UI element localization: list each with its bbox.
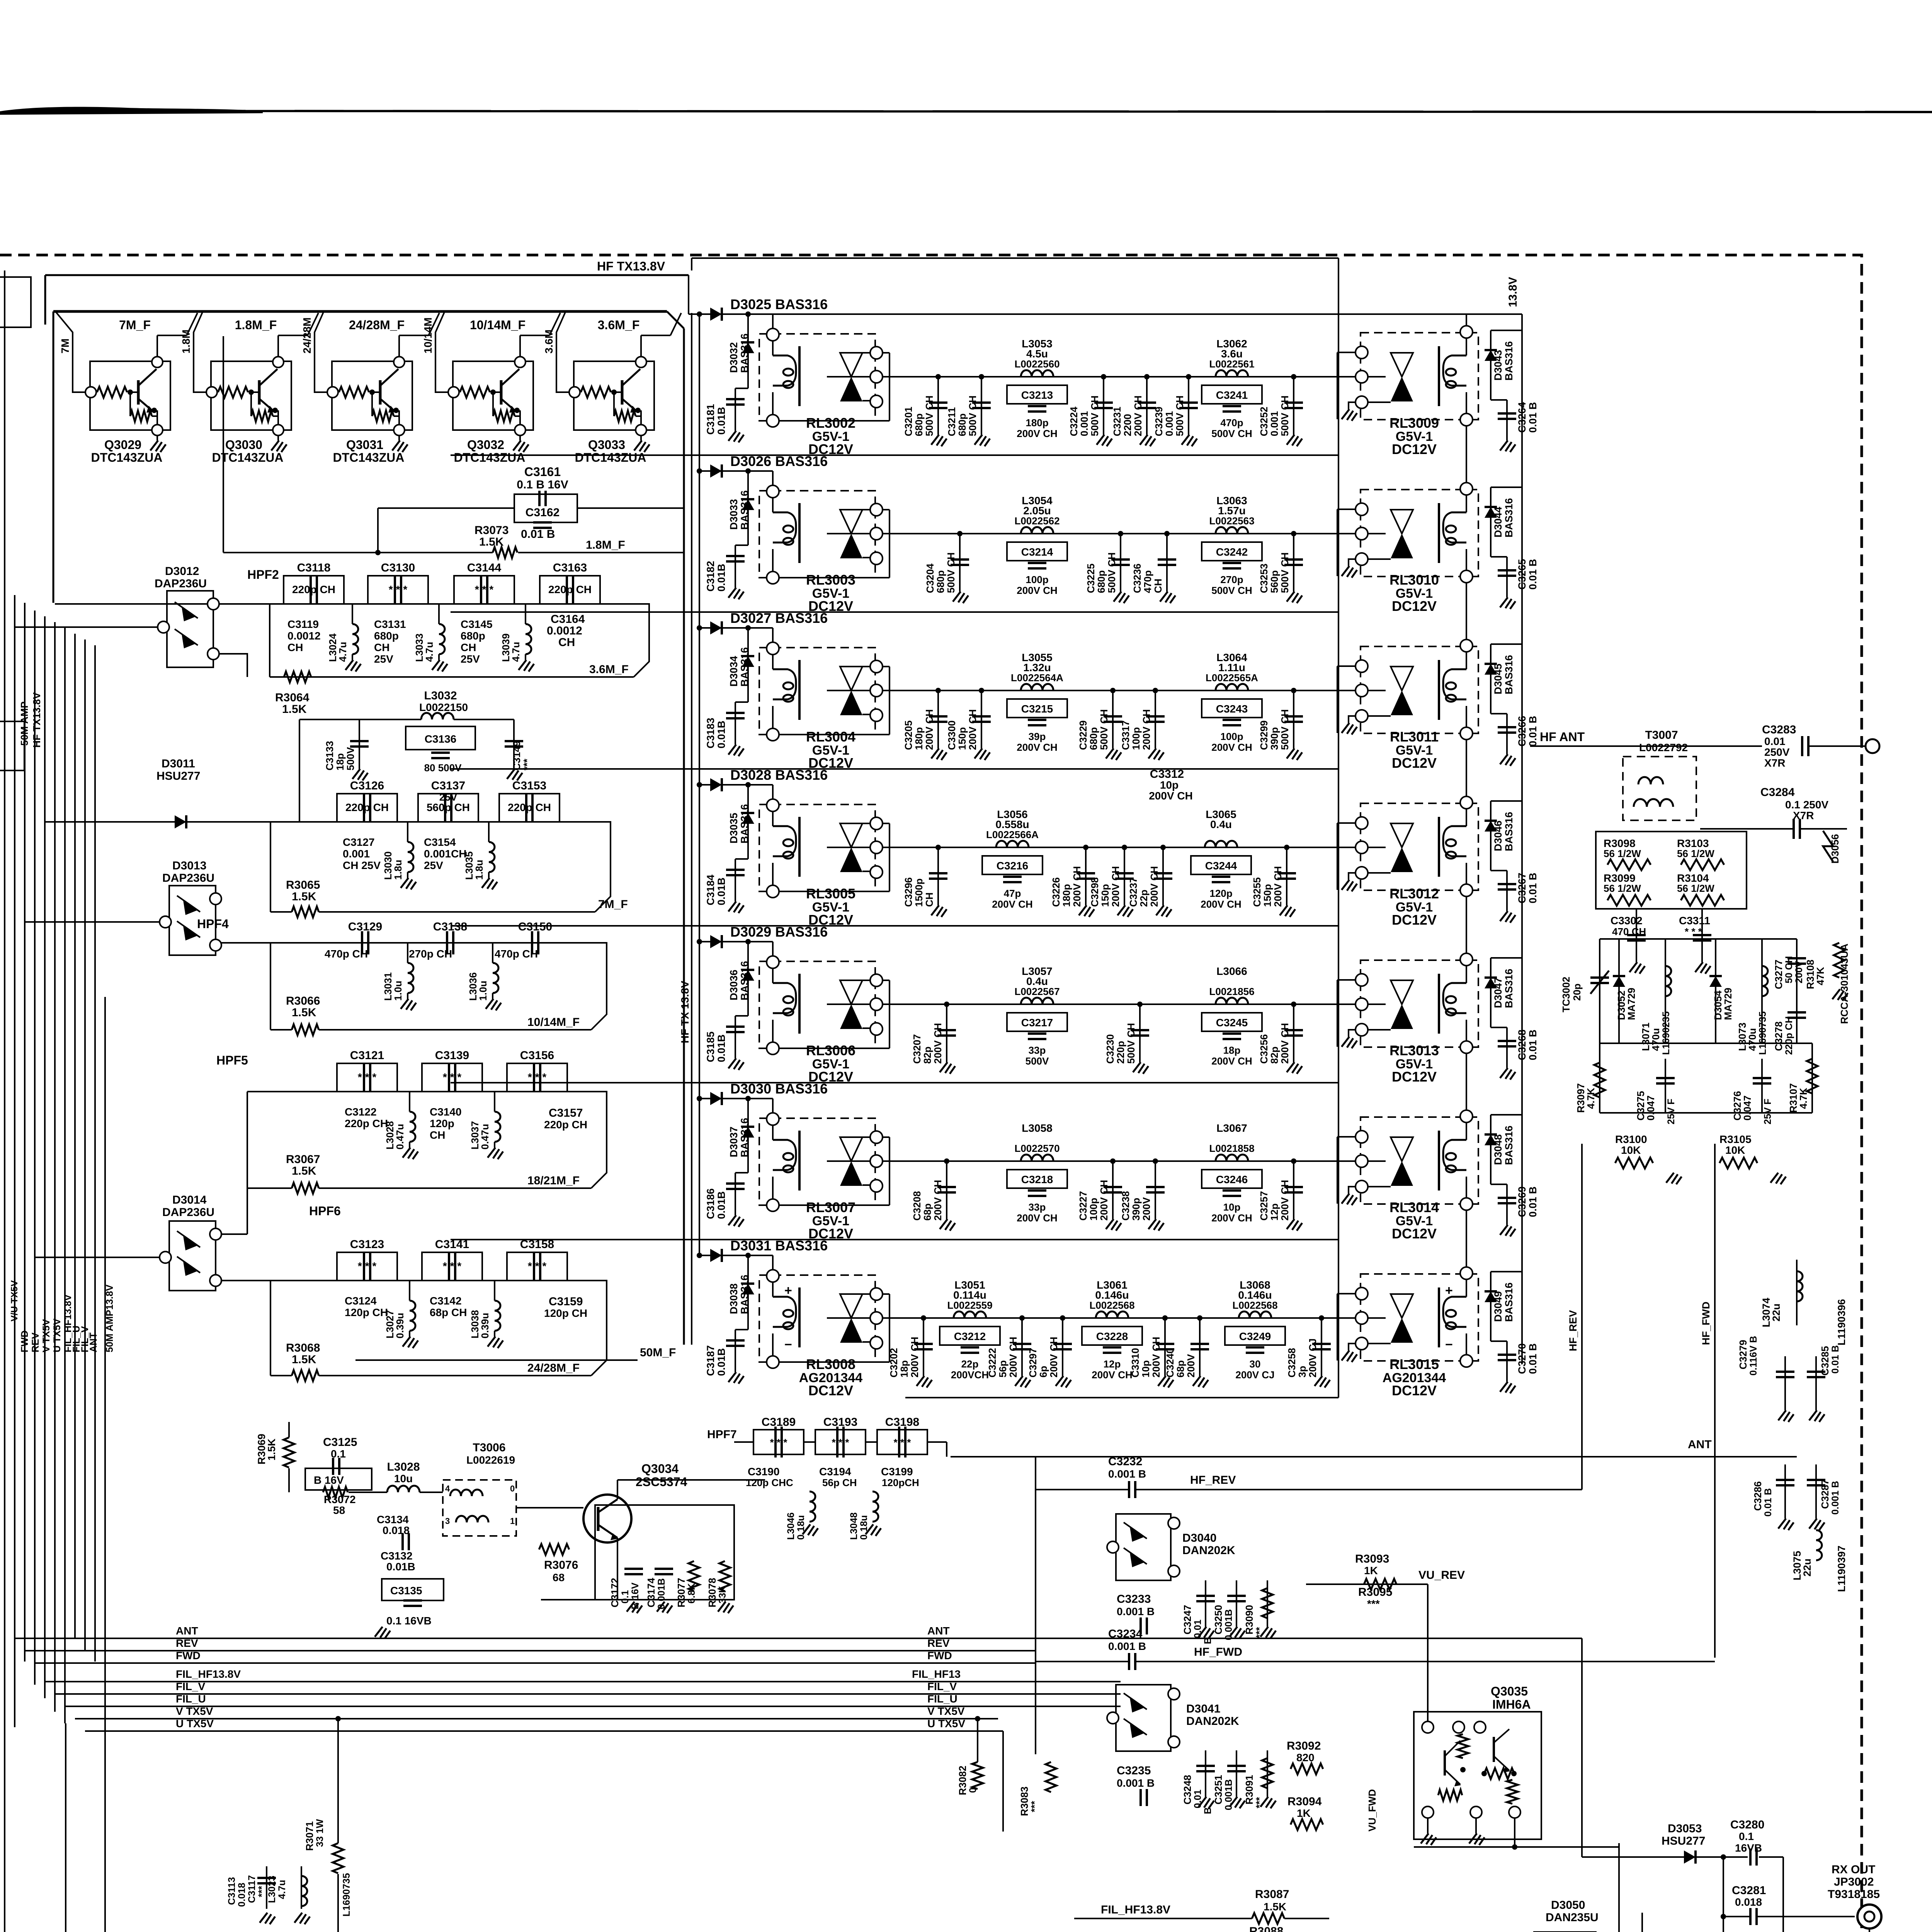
ground relay — [1349, 1030, 1355, 1037]
svg-text:RL3003: RL3003 — [806, 572, 855, 588]
capacitor C3249 — [1225, 1327, 1285, 1345]
svg-text:CH: CH — [461, 641, 476, 653]
svg-text:C3153: C3153 — [512, 779, 546, 792]
row separator — [451, 611, 1338, 613]
wire 1.8M_F — [223, 552, 493, 553]
svg-text:L0021856: L0021856 — [1209, 986, 1254, 997]
svg-text:24/28M_F: 24/28M_F — [349, 318, 405, 332]
svg-text:D3036: D3036 — [728, 969, 740, 1000]
wire input 10/14M — [435, 312, 449, 392]
svg-text:C3229: C3229 — [1077, 720, 1089, 750]
svg-text:100p: 100p — [1088, 1198, 1099, 1221]
svg-text:R3100: R3100 — [1615, 1133, 1647, 1145]
capacitor C3144 — [454, 576, 514, 604]
capacitor C3187 — [735, 1329, 748, 1330]
svg-text:C3133: C3133 — [324, 741, 335, 770]
svg-text:REV: REV — [927, 1637, 950, 1649]
svg-text:500V CH: 500V CH — [1089, 396, 1100, 437]
svg-text:+: + — [1445, 1283, 1453, 1298]
capacitor C3278 — [1787, 1012, 1806, 1018]
svg-text:DAN202K: DAN202K — [1182, 1544, 1235, 1557]
inductor L3067 — [1216, 1155, 1248, 1161]
capacitor C3268 — [1491, 1027, 1507, 1028]
capacitor C3183 — [735, 701, 748, 703]
svg-text:C3208: C3208 — [911, 1191, 923, 1221]
capacitor C3224 — [1103, 377, 1104, 435]
svg-text:R3078: R3078 — [706, 1578, 718, 1607]
svg-text:RL3008: RL3008 — [806, 1356, 855, 1372]
inductor L3046 — [809, 1454, 810, 1492]
svg-text:0.01B: 0.01B — [386, 1561, 415, 1573]
svg-text:L0022563: L0022563 — [1209, 515, 1254, 527]
svg-text:0.01B: 0.01B — [716, 407, 727, 435]
svg-text:FIL_HF13.8V: FIL_HF13.8V — [1101, 1903, 1170, 1916]
ground Q3029 — [156, 435, 158, 440]
svg-text:250V: 250V — [1764, 746, 1790, 758]
ground relay — [1349, 559, 1355, 566]
svg-text:10p: 10p — [1223, 1201, 1241, 1213]
row separator — [451, 1239, 1338, 1240]
resistor base Q3033 — [581, 387, 611, 398]
capacitor C3156 — [507, 1063, 567, 1092]
svg-text:FWD: FWD — [927, 1650, 952, 1662]
svg-text:0.01 B: 0.01 B — [1527, 402, 1539, 433]
svg-text:25V: 25V — [439, 791, 457, 803]
inductor L3055 — [1021, 684, 1053, 690]
wire output 24/28M_F — [398, 335, 400, 357]
svg-text:L0022565A: L0022565A — [1206, 672, 1258, 684]
resistor R3107 4.7K — [1811, 1043, 1813, 1113]
diode D3047 BAS316 vertical — [1490, 958, 1492, 1027]
ground Q3030 — [277, 435, 279, 440]
svg-text:MA729: MA729 — [1722, 988, 1734, 1020]
svg-text:47p: 47p — [1004, 888, 1021, 899]
svg-text:L1690235: L1690235 — [1661, 1011, 1672, 1055]
left vertical bus wires — [4, 270, 5, 1932]
svg-text:50M_F: 50M_F — [640, 1346, 676, 1359]
inductor L3030 — [407, 822, 408, 842]
capacitor C3236 — [1166, 534, 1168, 592]
svg-text:C3159: C3159 — [549, 1295, 583, 1308]
svg-text:220p CH: 220p CH — [508, 801, 551, 813]
capacitor C3241 — [1202, 385, 1262, 404]
wire output 3.6M_F — [640, 335, 642, 357]
capacitor C3212 — [940, 1327, 1000, 1345]
svg-text:C3233: C3233 — [1117, 1593, 1151, 1605]
svg-text:390p: 390p — [1269, 727, 1280, 750]
svg-text:12p: 12p — [1269, 1203, 1280, 1221]
svg-text:C3164: C3164 — [551, 613, 585, 626]
svg-text:FIL_U: FIL_U — [176, 1693, 206, 1705]
node pin emitter Q3030 — [273, 425, 284, 435]
svg-text:VU_FWD: VU_FWD — [1366, 1789, 1378, 1832]
svg-text:DC12V: DC12V — [1392, 1226, 1437, 1242]
svg-text:CH: CH — [430, 1129, 445, 1141]
node pin in Q3033 — [569, 387, 580, 398]
svg-text:500V CH: 500V CH — [967, 396, 978, 437]
svg-text:200V: 200V — [1141, 1197, 1152, 1221]
svg-text:470p CH: 470p CH — [325, 948, 368, 960]
svg-text:L0022560: L0022560 — [1014, 358, 1060, 370]
inductor L3037 — [494, 1092, 495, 1112]
svg-text:CH: CH — [287, 641, 303, 653]
svg-text:0.01 B: 0.01 B — [1830, 1345, 1841, 1374]
capacitor C3130 — [368, 576, 428, 604]
capacitor C3198 — [877, 1430, 927, 1454]
filter bank box — [53, 310, 667, 313]
svg-text:BAS316: BAS316 — [739, 490, 750, 530]
svg-text:***: *** — [1367, 1598, 1380, 1610]
svg-text:R3076: R3076 — [544, 1559, 578, 1571]
scan artifact top bar — [0, 107, 263, 115]
svg-text:L0022792: L0022792 — [1639, 742, 1688, 753]
svg-text:1.8u: 1.8u — [473, 860, 485, 880]
inductor L3073 470u — [1761, 939, 1763, 1043]
svg-text:C3249: C3249 — [1239, 1330, 1271, 1342]
capacitor C3300 — [981, 690, 982, 748]
svg-text:C3187: C3187 — [705, 1345, 716, 1376]
svg-text:0.01 B: 0.01 B — [1763, 1488, 1774, 1517]
svg-text:56p CH: 56p CH — [822, 1477, 857, 1488]
svg-text:C3243: C3243 — [1216, 703, 1248, 715]
row separator — [451, 454, 1338, 456]
svg-text:120p CH: 120p CH — [345, 1306, 388, 1318]
svg-text:500V CH: 500V CH — [1098, 709, 1110, 750]
right relay chain bus — [1466, 314, 1467, 326]
inductor L3051 — [954, 1311, 986, 1318]
svg-text:C3144: C3144 — [467, 561, 502, 574]
capacitor C3201 — [937, 377, 939, 435]
node pin in Q3029 — [85, 387, 96, 398]
wires right section — [1600, 938, 1797, 940]
svg-text:* * *: * * * — [528, 1071, 546, 1083]
svg-text:500V CH: 500V CH — [1125, 1023, 1137, 1064]
svg-text:DC12V: DC12V — [1392, 912, 1437, 928]
svg-text:33p: 33p — [1029, 1044, 1046, 1056]
svg-text:D3049: D3049 — [1492, 1291, 1504, 1322]
svg-text:R3091: R3091 — [1243, 1775, 1255, 1804]
diode D3027 BAS316 — [699, 627, 759, 629]
capacitor C3226 — [1085, 847, 1087, 905]
svg-text:0.0012: 0.0012 — [547, 624, 582, 637]
svg-text:0.001 B: 0.001 B — [1117, 1777, 1155, 1789]
svg-text:Q3034: Q3034 — [641, 1462, 679, 1476]
svg-text:L3023: L3023 — [267, 1876, 277, 1903]
wire 50M_F — [347, 1354, 348, 1376]
svg-text:50M AMP13.8V: 50M AMP13.8V — [104, 1284, 115, 1352]
svg-text:1.5K: 1.5K — [292, 1006, 316, 1019]
capacitor C3286 — [1784, 1464, 1786, 1519]
svg-text:RX OUT: RX OUT — [1832, 1863, 1875, 1876]
svg-text:D3040: D3040 — [1182, 1532, 1216, 1544]
svg-text:500V CH: 500V CH — [1279, 396, 1291, 437]
svg-text:0.047: 0.047 — [1645, 1095, 1656, 1121]
capacitor C3296 — [937, 847, 939, 905]
svg-text:200VCH: 200VCH — [951, 1369, 989, 1381]
svg-text:FIL_V: FIL_V — [927, 1680, 957, 1692]
svg-text:1.5K: 1.5K — [292, 890, 316, 903]
svg-text:680p: 680p — [956, 413, 968, 436]
ground Q3032 — [519, 435, 521, 440]
ground relay — [1349, 402, 1355, 409]
resistor base Q3029 — [97, 387, 127, 398]
svg-text:C3172: C3172 — [609, 1578, 621, 1607]
svg-text:C3123: C3123 — [350, 1238, 384, 1251]
svg-text:C3215: C3215 — [1021, 703, 1053, 715]
svg-text:RL3006: RL3006 — [806, 1043, 855, 1058]
svg-text:C3258: C3258 — [1286, 1348, 1298, 1378]
svg-text:82p: 82p — [922, 1046, 933, 1064]
capacitor C3266 — [1491, 713, 1507, 714]
filter row wire — [900, 533, 1314, 534]
svg-text:220p: 220p — [1115, 1041, 1126, 1064]
svg-text:L0022562: L0022562 — [1014, 515, 1060, 527]
svg-text:C3182: C3182 — [705, 561, 716, 592]
svg-text:0.01 B: 0.01 B — [521, 528, 555, 541]
svg-text:C3242: C3242 — [1216, 546, 1248, 558]
wire HF_REV vertical — [1581, 1144, 1583, 1490]
svg-text:4.7u: 4.7u — [510, 642, 522, 662]
svg-text:Q3035: Q3035 — [1491, 1684, 1528, 1698]
svg-text:470u: 470u — [1747, 1028, 1758, 1051]
svg-text:1.8u: 1.8u — [392, 860, 404, 880]
node pin in Q3030 — [206, 387, 217, 398]
capacitor C3258 — [1321, 1318, 1322, 1376]
svg-text:1.5K: 1.5K — [266, 1438, 277, 1461]
svg-text:200V CH: 200V CH — [1092, 1369, 1133, 1381]
svg-text:0.001: 0.001 — [1269, 411, 1280, 436]
svg-text:120p CHC: 120p CHC — [746, 1477, 793, 1488]
svg-text:200V CH: 200V CH — [932, 1023, 944, 1064]
left relay feed bus — [699, 314, 700, 1255]
svg-text:680p: 680p — [913, 413, 925, 436]
node pin emitter Q3033 — [636, 425, 646, 435]
svg-text:C3204: C3204 — [924, 563, 936, 593]
svg-text:3p: 3p — [1296, 1366, 1308, 1378]
svg-text:D3046: D3046 — [1492, 820, 1504, 851]
filter matrix frame — [692, 257, 1338, 259]
svg-text:R3071: R3071 — [304, 1821, 315, 1851]
svg-text:6p: 6p — [1037, 1366, 1049, 1378]
svg-text:1.0u: 1.0u — [392, 981, 404, 1001]
svg-text:100p: 100p — [1130, 727, 1142, 750]
svg-text:C3285: C3285 — [1819, 1346, 1831, 1376]
svg-text:C3268: C3268 — [1516, 1029, 1528, 1060]
capacitor C3267 — [1491, 870, 1507, 871]
net bus FIL_HF13.8V — [110, 1681, 1121, 1682]
capacitor C3181 — [735, 388, 748, 389]
svg-text:500V: 500V — [345, 747, 356, 770]
capacitor C3126 — [337, 794, 397, 822]
svg-text:C3135: C3135 — [390, 1585, 422, 1597]
svg-text:ANT: ANT — [176, 1625, 198, 1637]
svg-text:0.39u: 0.39u — [394, 1313, 406, 1339]
svg-text:RL3009: RL3009 — [1389, 415, 1439, 431]
svg-text:REV: REV — [176, 1637, 198, 1649]
terminal HF ANT — [1866, 739, 1879, 753]
svg-text:0.01: 0.01 — [1192, 1789, 1203, 1808]
relay RL3013 G5V-1 — [1361, 960, 1478, 1047]
svg-text:C3257: C3257 — [1258, 1191, 1270, 1221]
wire VU_FWD down — [1618, 1843, 1620, 1932]
svg-text:L1690735: L1690735 — [341, 1873, 352, 1917]
inductor L3028 — [409, 1092, 410, 1112]
svg-text:L3046: L3046 — [786, 1512, 796, 1540]
svg-text:C3216: C3216 — [997, 860, 1029, 872]
svg-text:C3226: C3226 — [1050, 877, 1062, 907]
svg-text:C3231: C3231 — [1111, 406, 1123, 436]
svg-text:C3118: C3118 — [297, 561, 331, 574]
svg-text:RL3011: RL3011 — [1390, 729, 1439, 745]
svg-text:0.01 B: 0.01 B — [1527, 1029, 1539, 1060]
svg-text:680p: 680p — [1095, 570, 1107, 593]
svg-text:CH 25V: CH 25V — [343, 859, 381, 871]
capacitor C3204 — [959, 534, 961, 592]
svg-text:150p: 150p — [956, 727, 968, 750]
filter row wire — [900, 1003, 1314, 1005]
svg-text:200V CH: 200V CH — [1211, 742, 1252, 753]
svg-text:D3026 BAS316: D3026 BAS316 — [730, 453, 828, 469]
svg-text:200V CH: 200V CH — [967, 709, 978, 750]
capacitor C3137 — [418, 794, 478, 822]
capacitor C3207 — [946, 1004, 947, 1062]
relay RL3009 G5V-1 — [1361, 333, 1478, 420]
svg-text:200V CH: 200V CH — [1007, 1337, 1019, 1378]
capacitor C3239 — [1188, 377, 1189, 435]
svg-text:33 1W: 33 1W — [315, 1819, 325, 1847]
svg-text:12p: 12p — [1104, 1358, 1121, 1370]
svg-text:DAP236U: DAP236U — [162, 872, 214, 884]
svg-text:D3035: D3035 — [728, 813, 740, 844]
svg-text:L1190397: L1190397 — [1836, 1546, 1847, 1592]
svg-text:L3067: L3067 — [1216, 1122, 1247, 1134]
capacitor C3255 — [1286, 847, 1287, 905]
svg-text:3: 3 — [445, 1516, 450, 1526]
svg-text:−: − — [784, 1337, 792, 1352]
output network Q3034 — [595, 1505, 734, 1600]
svg-text:10u: 10u — [394, 1473, 413, 1485]
svg-text:0.001: 0.001 — [1163, 411, 1175, 436]
svg-text:0.018: 0.018 — [383, 1524, 410, 1536]
svg-text:L0022619: L0022619 — [466, 1454, 515, 1466]
svg-text:DC12V: DC12V — [808, 1383, 853, 1398]
svg-text:0.01B: 0.01B — [716, 721, 727, 748]
svg-text:IMH6A: IMH6A — [1492, 1697, 1531, 1711]
svg-text:120p: 120p — [1209, 888, 1232, 899]
svg-text:200V CH: 200V CH — [1048, 1337, 1060, 1378]
svg-text:DTC143ZUA: DTC143ZUA — [575, 451, 646, 464]
capacitor C3213 — [1007, 385, 1067, 404]
svg-text:10/14M: 10/14M — [422, 318, 434, 354]
svg-text:U TX5V: U TX5V — [52, 1318, 63, 1352]
svg-text:200V CJ: 200V CJ — [1235, 1369, 1274, 1381]
svg-text:D3011: D3011 — [162, 757, 195, 770]
svg-text:C3283: C3283 — [1762, 723, 1796, 736]
svg-text:200V CH: 200V CH — [1149, 790, 1193, 802]
diode D3046 BAS316 vertical — [1490, 801, 1492, 871]
capacitor C3139 — [422, 1063, 482, 1092]
svg-text:10K: 10K — [1725, 1144, 1745, 1156]
transistor Q3029 DTC143ZUA cell — [90, 361, 170, 430]
net bus FIL_U — [110, 1706, 1121, 1707]
svg-text:4: 4 — [445, 1484, 450, 1493]
svg-text:L0022570: L0022570 — [1014, 1143, 1060, 1154]
diode D3044 BAS316 vertical — [1490, 487, 1492, 557]
net bus FIL_V — [110, 1693, 1121, 1695]
net bus REV — [110, 1650, 1036, 1651]
svg-text:500V CH: 500V CH — [1211, 585, 1252, 596]
capacitor C3298 — [1124, 847, 1125, 905]
svg-text:R3092: R3092 — [1287, 1740, 1321, 1752]
capacitor C3135 — [382, 1579, 444, 1600]
wire U TX5V drop to D3041 area — [1002, 1731, 1004, 1832]
svg-text:D3038: D3038 — [728, 1283, 740, 1314]
svg-text:RCCA-301043UA: RCCA-301043UA — [1838, 944, 1850, 1024]
svg-text:C3117: C3117 — [247, 1875, 257, 1903]
svg-text:FIL_HF13: FIL_HF13 — [912, 1668, 961, 1680]
svg-text:1.5K: 1.5K — [1264, 1901, 1286, 1913]
svg-text:4.7K: 4.7K — [1798, 1088, 1809, 1109]
svg-text:C3140: C3140 — [430, 1106, 462, 1118]
svg-text:***: *** — [257, 1886, 267, 1897]
resistor R3091 — [1267, 1750, 1268, 1797]
svg-text:0.1 B 16V: 0.1 B 16V — [517, 478, 568, 491]
capacitor C3227 — [1112, 1161, 1114, 1219]
svg-text:BAS316: BAS316 — [1503, 341, 1515, 381]
svg-text:***: *** — [1254, 1797, 1265, 1808]
svg-text:4.7K: 4.7K — [1585, 1088, 1597, 1109]
svg-text:30: 30 — [1250, 1358, 1261, 1370]
svg-text:C3138: C3138 — [433, 920, 467, 933]
wire HF_FWD vertical — [1714, 1144, 1716, 1658]
capacitor C3269 — [1491, 1184, 1507, 1185]
diode D3028 BAS316 — [699, 784, 759, 786]
svg-text:U TX5V: U TX5V — [176, 1718, 214, 1730]
capacitor C3270 — [1491, 1340, 1507, 1342]
svg-text:RL3010: RL3010 — [1389, 572, 1439, 588]
svg-text:0.01: 0.01 — [1192, 1619, 1203, 1638]
svg-text:R3064: R3064 — [275, 691, 310, 704]
svg-text:82p: 82p — [1269, 1046, 1280, 1064]
svg-text:DC12V: DC12V — [1392, 441, 1437, 457]
svg-text:33K: 33K — [717, 1586, 728, 1604]
cell B 16V — [305, 1468, 372, 1490]
svg-text:680p: 680p — [374, 630, 399, 642]
svg-text:0.18u: 0.18u — [859, 1515, 869, 1540]
capacitor C3121 — [337, 1063, 397, 1092]
svg-text:200V CH: 200V CH — [1279, 1023, 1291, 1064]
svg-text:C3302: C3302 — [1611, 915, 1643, 927]
capacitor C3186 — [735, 1172, 748, 1173]
svg-text:D3044: D3044 — [1492, 507, 1504, 537]
capacitor C3279 — [1784, 1356, 1786, 1410]
resistor emitter Q3030 — [250, 392, 252, 416]
diode D3048 BAS316 vertical — [1490, 1115, 1492, 1184]
svg-text:RL3014: RL3014 — [1389, 1199, 1439, 1215]
diode D3049 BAS316 vertical — [1490, 1272, 1492, 1341]
svg-text:0.001CH: 0.001CH — [424, 848, 467, 860]
wire input 3.6M — [556, 312, 570, 392]
svg-text:2200: 2200 — [1122, 414, 1133, 436]
svg-text:C3205: C3205 — [903, 720, 914, 750]
svg-text:1.5K: 1.5K — [282, 703, 307, 716]
svg-text:U TX5V: U TX5V — [927, 1718, 965, 1730]
svg-text:R3082: R3082 — [957, 1765, 968, 1795]
svg-text:68p: 68p — [1175, 1360, 1186, 1378]
capacitor C3215 — [1007, 699, 1067, 718]
diode D3035 BAS316 vertical — [747, 785, 749, 859]
svg-text:BAS316: BAS316 — [1503, 655, 1515, 694]
